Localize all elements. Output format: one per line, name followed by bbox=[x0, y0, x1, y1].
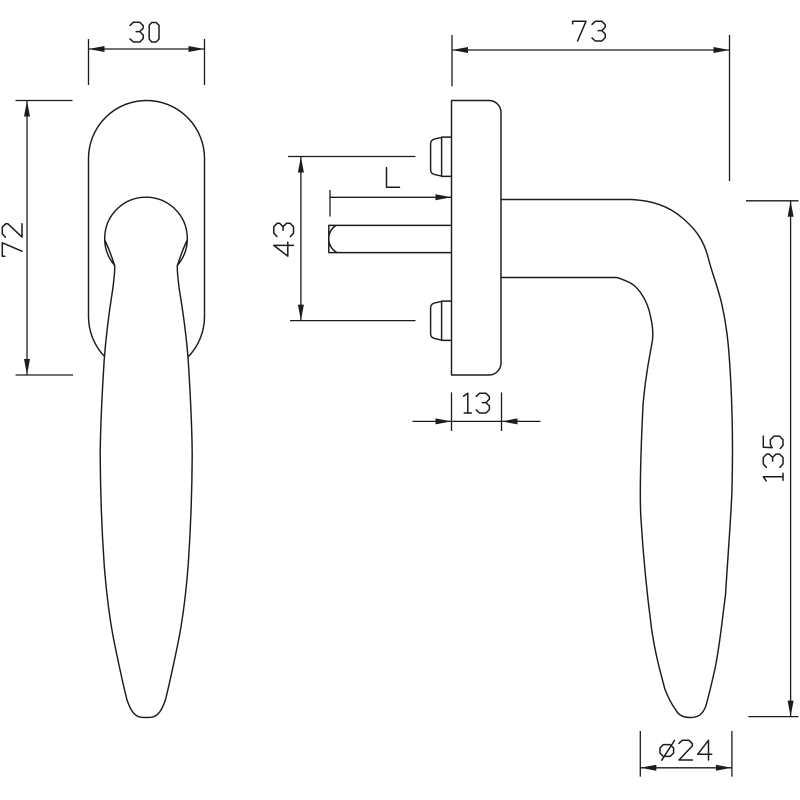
spindle shaft bbox=[329, 225, 452, 252]
dim L bbox=[330, 190, 452, 217]
text 13 bbox=[464, 393, 490, 413]
top screw cap bbox=[431, 137, 442, 176]
handle side view (neck + grip) bbox=[501, 200, 733, 718]
text L bbox=[387, 168, 400, 188]
dim 73 bbox=[452, 35, 730, 181]
bottom screw cap bbox=[431, 301, 442, 340]
dimension arrowheads bbox=[89, 46, 105, 52]
dim 135 bbox=[746, 201, 799, 717]
grip front outline stroke bbox=[100, 240, 192, 718]
text 73 bbox=[573, 21, 606, 41]
bottom screw flange bbox=[442, 301, 452, 340]
handle grip front view (white fill hides rosette arc behind) bbox=[100, 199, 192, 718]
dim 43 bbox=[288, 157, 416, 321]
text 135 (rotated) bbox=[763, 436, 783, 481]
collar circle arc bbox=[105, 197, 188, 265]
top screw flange bbox=[442, 137, 452, 176]
dim 72 bbox=[16, 101, 74, 376]
dim o24 bbox=[640, 731, 732, 777]
text 72 (rotated) bbox=[2, 224, 22, 257]
text o24 bbox=[660, 740, 712, 760]
rosette plate side view bbox=[452, 101, 502, 376]
spindle rounded end arc bbox=[329, 226, 337, 253]
text 30 bbox=[130, 22, 159, 42]
dim 13 bbox=[413, 392, 541, 431]
dim 30 bbox=[89, 39, 205, 85]
text 43 (rotated) bbox=[274, 223, 294, 256]
rosette plate (stadium outline) bbox=[89, 101, 205, 375]
